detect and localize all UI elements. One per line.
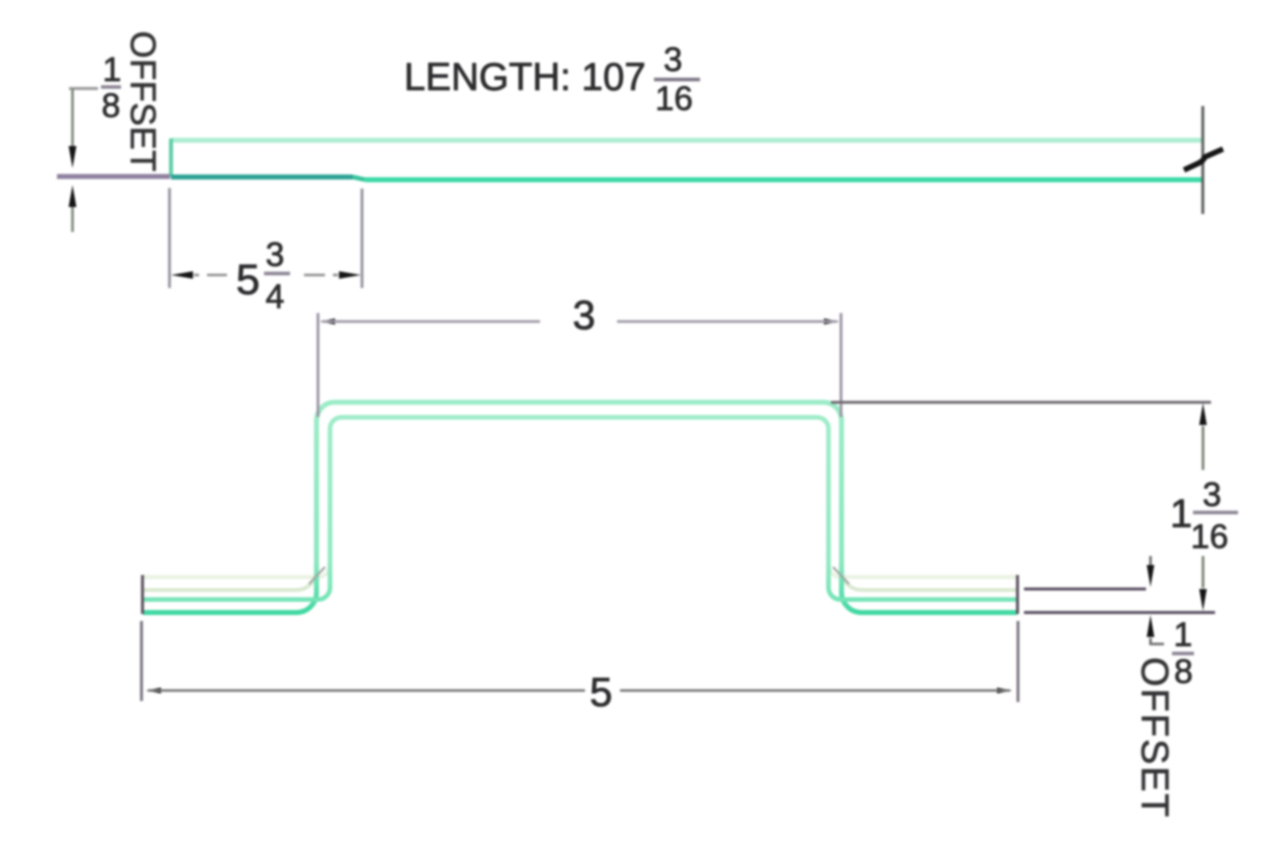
svg-text:OFFSET: OFFSET xyxy=(123,31,162,172)
svg-text:3: 3 xyxy=(664,41,683,79)
5 3/4 dimension: right dash xyxy=(304,274,325,277)
bar left edge xyxy=(169,139,173,178)
svg-text:5: 5 xyxy=(590,669,613,715)
3 dimension line left segment + arrow xyxy=(320,318,335,324)
1/8 offset dimension (left): bracket xyxy=(69,87,98,90)
svg-text:1: 1 xyxy=(1170,492,1192,536)
ghost bend crossing mark (left web) xyxy=(309,567,325,584)
5 3/4 dimension: right arrow xyxy=(339,271,361,279)
bar bottom edge (main) xyxy=(365,177,1204,182)
1/8 offset dimension (left): lower stem xyxy=(71,207,74,232)
5 dimension line left segment + arrow xyxy=(146,688,161,694)
1/8 offset (right): upper arrow (down) xyxy=(1147,565,1155,587)
ghost flange left (inner/top line) xyxy=(143,565,330,577)
1/8 offset (right): lower extension line xyxy=(1024,611,1215,614)
1/8 offset dimension (left): upper stem xyxy=(71,89,74,149)
1 3/16 dimension: upper arrow (up) xyxy=(1199,403,1207,425)
ghost flange left (outer/bottom line) xyxy=(143,570,317,590)
5 3/4 dimension: left dash xyxy=(207,274,227,277)
1 3/16 dimension: top extension line xyxy=(831,401,1211,404)
5 dimension line right segment + arrow xyxy=(997,688,1012,694)
1 3/16 dimension: lower stem xyxy=(1202,556,1205,588)
5 3/4 dimension: right extension line xyxy=(361,189,364,289)
5 dimension: right extension line xyxy=(1017,621,1020,702)
break line (right end) xyxy=(1201,106,1204,214)
fraction bar 1/8 (left) xyxy=(101,85,121,88)
ghost flange right (inner/top line) xyxy=(829,565,1018,577)
svg-text:3: 3 xyxy=(266,236,285,274)
svg-text:4: 4 xyxy=(266,278,285,316)
svg-text:16: 16 xyxy=(655,80,693,118)
3 dimension: left extension line xyxy=(317,313,320,417)
svg-text:16: 16 xyxy=(1191,518,1229,556)
svg-text:3: 3 xyxy=(573,292,596,338)
fraction bar 3/4 xyxy=(264,272,290,275)
svg-text:8: 8 xyxy=(102,87,121,125)
1/8 offset dimension (left): lower arrow (up) xyxy=(69,185,77,207)
svg-text:1: 1 xyxy=(103,51,122,89)
bar top edge xyxy=(171,138,1202,143)
right flange end edge xyxy=(1016,575,1019,614)
1 3/16 dimension: lower arrow (down) xyxy=(1199,589,1207,611)
hat profile inner surface xyxy=(143,417,1017,599)
3 dimension line right segment + arrow xyxy=(824,318,839,324)
svg-text:5: 5 xyxy=(236,256,260,304)
ghost bend crossing mark (right web) xyxy=(833,567,849,584)
5 3/4 dimension: left arrow xyxy=(171,271,193,279)
5 3/4 dimension: left extension line xyxy=(168,188,171,288)
left flange end edge xyxy=(141,575,144,614)
text 1/8 (right) xyxy=(1174,616,1193,691)
1/8 offset (right): upper stem xyxy=(1149,556,1152,568)
5 dimension: left extension line xyxy=(140,621,143,701)
svg-text:OFFSET: OFFSET xyxy=(1133,657,1175,819)
fraction bar 1/8 (right) xyxy=(1172,652,1194,655)
svg-text:8: 8 xyxy=(1174,653,1193,691)
1 3/16 dimension: upper stem xyxy=(1202,426,1205,470)
ghost flange right (outer/bottom line) xyxy=(842,570,1018,590)
svg-text:LENGTH: 107: LENGTH: 107 xyxy=(404,56,646,99)
1/8 offset dimension (left): upper arrow (down) xyxy=(69,146,77,168)
svg-text:3: 3 xyxy=(1203,476,1222,514)
1/8 offset (right): upper extension line xyxy=(1024,588,1146,591)
LENGTH fraction bar xyxy=(654,78,700,81)
break slash mark xyxy=(1184,149,1223,170)
1/8 offset (right): lower arrow (up) xyxy=(1147,615,1155,637)
fraction bar 3/16 xyxy=(1193,511,1238,514)
extension line of offset tab (thick purple) xyxy=(57,174,170,179)
svg-text:1: 1 xyxy=(1174,616,1193,654)
LENGTH fraction 3/16 xyxy=(655,41,693,118)
text 1/8 (left) xyxy=(102,51,122,125)
3 dimension: right extension line xyxy=(840,313,843,417)
bar bottom jog xyxy=(353,177,365,180)
1/8 offset (right): lower stem + tick xyxy=(1151,638,1165,644)
hat profile outer surface xyxy=(143,402,1017,612)
bar bottom edge (offset tab segment) xyxy=(171,175,353,180)
